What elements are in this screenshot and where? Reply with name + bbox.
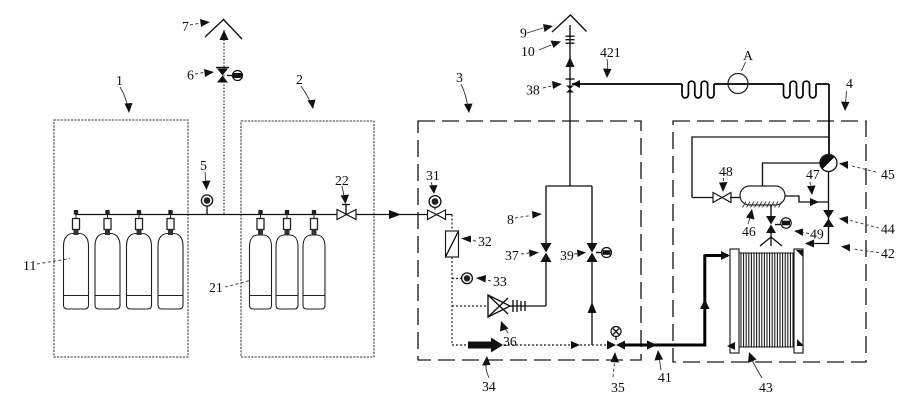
svg-text:36: 36 [503,334,517,349]
svg-text:2: 2 [296,72,303,87]
svg-text:A: A [743,48,753,63]
svg-text:3: 3 [456,70,463,85]
svg-text:32: 32 [478,234,492,249]
svg-text:41: 41 [658,370,672,385]
svg-text:38: 38 [526,83,540,98]
svg-text:10: 10 [521,44,535,59]
svg-text:45: 45 [881,167,895,182]
svg-text:34: 34 [482,379,496,394]
svg-text:33: 33 [493,274,507,289]
svg-text:43: 43 [759,380,773,395]
svg-text:4: 4 [846,76,853,91]
svg-text:46: 46 [742,224,756,239]
svg-text:421: 421 [600,45,621,60]
svg-text:11: 11 [23,258,36,273]
svg-text:48: 48 [719,164,733,179]
svg-text:47: 47 [806,167,820,182]
svg-text:42: 42 [881,246,895,261]
svg-text:37: 37 [505,248,519,263]
svg-text:49: 49 [810,227,824,242]
svg-text:39: 39 [560,248,574,263]
svg-text:31: 31 [426,168,440,183]
svg-text:6: 6 [187,68,194,83]
svg-text:9: 9 [520,26,527,41]
svg-text:5: 5 [200,158,207,173]
svg-text:1: 1 [116,73,123,88]
svg-text:8: 8 [507,212,514,227]
svg-text:22: 22 [335,173,349,188]
svg-text:35: 35 [611,380,625,395]
svg-text:7: 7 [182,19,189,34]
svg-text:21: 21 [209,280,223,295]
svg-text:44: 44 [881,222,895,237]
